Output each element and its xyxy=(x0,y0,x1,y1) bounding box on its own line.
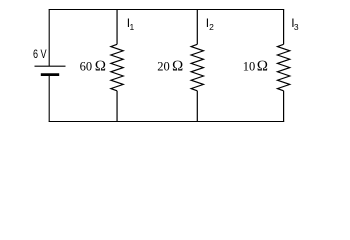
svg-text:60: 60 xyxy=(80,60,93,74)
wire branch1 lower xyxy=(116,91,118,122)
wire branch3 upper (right edge) xyxy=(283,10,285,45)
svg-text:Ω: Ω xyxy=(172,59,184,75)
svg-text:20: 20 xyxy=(157,60,170,74)
svg-text:10: 10 xyxy=(243,60,256,74)
wire branch2 lower xyxy=(196,91,198,122)
resistor R1 60 ohm zigzag xyxy=(111,44,123,91)
wire branch2 upper xyxy=(196,10,198,45)
resistor R3 10 ohm zigzag xyxy=(277,44,289,91)
battery V1 negative plate (short thick) xyxy=(41,73,59,76)
svg-text:Ω: Ω xyxy=(257,59,269,75)
resistor R2 20 ohm zigzag xyxy=(191,44,203,91)
svg-text:I2: I2 xyxy=(206,16,214,32)
wire top rail xyxy=(49,9,285,11)
battery V1 positive plate (long thin) xyxy=(35,65,66,67)
wire left upper (top rail to battery) xyxy=(48,10,50,67)
svg-text:I1: I1 xyxy=(127,16,135,32)
svg-text:6 V: 6 V xyxy=(33,47,47,61)
wire left lower (battery to bottom rail) xyxy=(48,75,50,122)
wire branch1 upper xyxy=(116,10,118,45)
svg-text:I3: I3 xyxy=(291,16,299,32)
wire branch3 lower (right edge) xyxy=(283,91,285,122)
wire bottom rail xyxy=(49,121,285,123)
svg-text:Ω: Ω xyxy=(95,59,107,75)
